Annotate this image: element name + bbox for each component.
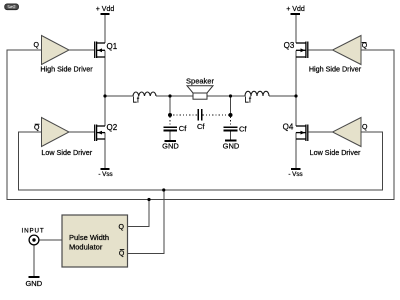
svg-text:GND: GND [25,279,42,288]
svg-text:+ Vdd: + Vdd [286,6,305,13]
svg-text:Q3: Q3 [284,41,295,50]
svg-text:Cf: Cf [179,124,187,133]
svg-text:Speaker: Speaker [186,76,214,85]
svg-text:Lf: Lf [245,96,252,105]
svg-text:Pulse Width: Pulse Width [69,233,109,242]
svg-text:Q: Q [362,42,368,49]
svg-text:High Side Driver: High Side Driver [40,65,93,74]
svg-text:Lf: Lf [133,96,140,105]
svg-text:Q: Q [119,250,125,257]
svg-text:Cf: Cf [197,122,205,131]
svg-text:Q: Q [34,124,40,131]
svg-text:INPUT: INPUT [21,228,44,235]
svg-text:+ Vdd: + Vdd [96,6,115,13]
svg-text:Modulator: Modulator [69,243,103,252]
svg-text:Q: Q [119,224,125,231]
svg-text:Q: Q [362,124,368,131]
svg-text:Cf: Cf [239,125,247,134]
svg-text:- Vss: - Vss [98,171,112,178]
svg-text:- Vss: - Vss [288,171,302,178]
svg-text:GND: GND [223,142,240,151]
svg-text:Q4: Q4 [283,122,294,131]
svg-text:High Side Driver: High Side Driver [309,65,362,74]
svg-text:GND: GND [162,141,179,150]
svg-text:Q2: Q2 [107,123,118,132]
svg-text:Q1: Q1 [107,42,118,51]
svg-text:Low Side Driver: Low Side Driver [41,148,92,157]
svg-text:Q: Q [34,42,40,49]
svg-text:Low Side Driver: Low Side Driver [310,148,361,157]
